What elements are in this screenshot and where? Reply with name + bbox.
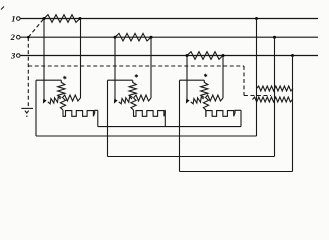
- svg-text:3: 3: [10, 51, 16, 61]
- svg-text:1: 1: [11, 13, 15, 23]
- svg-text:2: 2: [10, 32, 16, 42]
